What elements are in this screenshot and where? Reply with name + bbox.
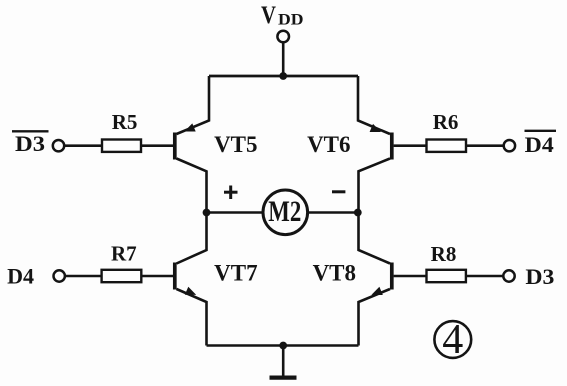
label minus bbox=[332, 190, 345, 193]
svg-text:VT5: VT5 bbox=[214, 132, 257, 157]
wire V_DD stem bbox=[282, 42, 285, 76]
label D4bar bbox=[525, 131, 557, 157]
wire VT5 emitter riser bbox=[177, 76, 210, 134]
wire motor right bbox=[308, 211, 359, 214]
wire VT8 collector riser bbox=[359, 213, 391, 264]
svg-text:V: V bbox=[261, 2, 276, 29]
svg-text:R8: R8 bbox=[431, 242, 457, 266]
terminal V_DD bbox=[277, 31, 289, 43]
wire ground stem bbox=[282, 346, 285, 377]
svg-text:D3: D3 bbox=[15, 131, 45, 156]
wire top rail bbox=[209, 75, 358, 78]
svg-text:R5: R5 bbox=[112, 110, 138, 134]
transistor VT6 bbox=[359, 124, 392, 213]
wire VT6 emitter riser bbox=[358, 76, 390, 134]
svg-text:4: 4 bbox=[442, 317, 463, 363]
svg-text:D3: D3 bbox=[525, 264, 554, 289]
transistor VT7 bbox=[175, 263, 207, 346]
node motor right bbox=[354, 209, 362, 217]
svg-text:DD: DD bbox=[278, 12, 304, 29]
terminal D4 bbox=[54, 270, 65, 281]
svg-text:D4: D4 bbox=[7, 264, 34, 289]
ground bbox=[270, 376, 297, 380]
transistor VT8 bbox=[359, 263, 392, 346]
svg-text:VT6: VT6 bbox=[307, 132, 350, 157]
figure number 4 bbox=[434, 317, 471, 363]
label plus bbox=[224, 186, 238, 200]
label D3bar bbox=[12, 131, 49, 156]
resistor R7 bbox=[65, 270, 173, 282]
terminal D3bar bbox=[53, 140, 64, 151]
node junction top rail bbox=[279, 72, 287, 80]
resistor R8 bbox=[394, 270, 504, 282]
svg-text:VT7: VT7 bbox=[214, 261, 257, 286]
svg-text:R6: R6 bbox=[433, 110, 459, 134]
terminal D3 bbox=[503, 270, 514, 281]
svg-text:D4: D4 bbox=[525, 132, 554, 157]
svg-text:VT8: VT8 bbox=[313, 261, 356, 286]
resistor R5 bbox=[64, 140, 173, 152]
transistor VT5 bbox=[175, 123, 207, 212]
node junction bottom rail bbox=[279, 342, 287, 350]
node motor left bbox=[203, 209, 211, 217]
terminal D4bar bbox=[504, 140, 515, 151]
wire motor left bbox=[207, 211, 264, 214]
wire bottom rail bbox=[207, 344, 359, 347]
power V_DD label bbox=[261, 2, 304, 29]
motor M2 bbox=[263, 190, 308, 235]
svg-text:R7: R7 bbox=[111, 241, 137, 265]
svg-text:M2: M2 bbox=[268, 195, 301, 228]
resistor R6 bbox=[394, 140, 504, 152]
wire VT7 collector riser bbox=[177, 213, 207, 264]
